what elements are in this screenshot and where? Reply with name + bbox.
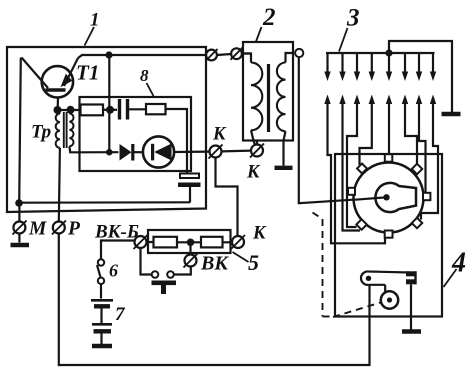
- cap contact N: [385, 154, 393, 162]
- label 4: [451, 248, 466, 279]
- label K left: [212, 125, 227, 145]
- terminal on bus 1: [206, 49, 218, 61]
- label K at box 5: [252, 224, 267, 244]
- cap contact SE: [412, 218, 422, 228]
- coil HV terminal: [295, 49, 303, 57]
- leader line for label 2: [256, 27, 262, 42]
- wire secondary bottom to diode row: [69, 146, 80, 152]
- junction dot M node: [15, 199, 23, 207]
- label R: [67, 219, 81, 240]
- capacitor C1: [120, 99, 128, 120]
- svg-text:Т1: Т1: [76, 61, 99, 85]
- junction dot secondary top: [67, 106, 75, 114]
- label 8: [140, 66, 149, 85]
- label 5: [248, 250, 259, 275]
- label VK-B: [94, 222, 139, 243]
- wire R4 to terminal K: [223, 241, 232, 243]
- terminal K right of box 5: [231, 235, 245, 249]
- wire switch to battery: [100, 284, 102, 298]
- plug wire 7: [419, 102, 426, 193]
- label 1: [90, 10, 100, 31]
- cap contact W: [348, 188, 355, 195]
- transistor T1: [22, 55, 83, 107]
- cam: [381, 291, 398, 308]
- wire from box 1 to coil terminals: [205, 54, 208, 56]
- svg-text:8: 8: [140, 66, 149, 85]
- label Tr: [31, 122, 51, 143]
- starter contact right: [167, 271, 174, 278]
- junction dot diode row: [106, 149, 113, 156]
- transformer Tr core: [64, 112, 67, 148]
- spark gap down arrows: [324, 53, 436, 81]
- wire VK-B to switch 6: [101, 241, 135, 260]
- cap contact SW: [356, 219, 366, 229]
- svg-text:ВК-Б: ВК-Б: [94, 222, 139, 243]
- svg-text:6: 6: [109, 261, 118, 281]
- junction dot resistor row: [106, 106, 114, 114]
- resistor R2: [146, 104, 166, 114]
- transformer Tr secondary winding: [69, 114, 73, 147]
- terminal VK: [184, 254, 198, 268]
- wire coil K terminal up into box: [256, 141, 258, 145]
- label VK: [200, 253, 229, 275]
- ground below fixed contact: [402, 329, 421, 333]
- svg-text:К: К: [252, 224, 267, 244]
- svg-text:ВК: ВК: [200, 253, 229, 275]
- stabilitron D2 in circle: [143, 136, 174, 167]
- resistor R1: [81, 105, 104, 116]
- wire collector down left side: [19, 58, 21, 204]
- wire vertical from emitter bus to diode row: [108, 55, 110, 152]
- wire base row: [58, 109, 81, 111]
- leader line for label 5: [233, 252, 249, 262]
- breaker pivot dot: [366, 276, 371, 281]
- terminal on bus 2: [231, 48, 243, 60]
- plug wire 1: [328, 102, 386, 243]
- wire base node to primary top: [58, 110, 60, 114]
- ground below battery: [92, 344, 112, 348]
- junction dot base node: [54, 106, 62, 114]
- wire VK-B terminal to R3: [147, 241, 154, 243]
- breaker lever: [361, 271, 410, 291]
- resistor R4: [201, 237, 223, 248]
- plug wire 4: [360, 102, 372, 165]
- rotor center dot: [383, 194, 389, 200]
- diode row wire: [80, 151, 119, 153]
- distributor cap: [354, 163, 424, 233]
- spark gap up arrows: [324, 95, 436, 105]
- ground bar right: [442, 112, 461, 116]
- junction dot emitter bus: [105, 51, 112, 58]
- svg-text:Р: Р: [67, 219, 81, 240]
- distributor box 4: [335, 154, 442, 317]
- leader line for label 8: [147, 83, 154, 96]
- coil core: [267, 64, 270, 132]
- capacitor C2 top plate: [180, 174, 199, 179]
- junction dot between R3 R4: [187, 239, 195, 247]
- svg-text:1: 1: [90, 10, 100, 31]
- wire M row: [19, 201, 190, 204]
- box unit 8 outline: [80, 97, 192, 171]
- leader line for label 3: [339, 28, 348, 52]
- box unit 1 outline: [7, 47, 206, 212]
- starter contact common bar: [152, 283, 177, 294]
- svg-text:2: 2: [262, 4, 276, 31]
- terminal R: [52, 221, 66, 235]
- wire between K terminals: [222, 150, 251, 153]
- svg-text:К: К: [246, 163, 261, 183]
- breaker fixed contact: [406, 271, 417, 284]
- plug wire 5: [388, 102, 390, 153]
- label M: [28, 219, 47, 240]
- svg-text:Тр: Тр: [31, 122, 51, 143]
- wire contacts to VK terminal: [174, 267, 191, 275]
- cap contact NW: [357, 164, 367, 174]
- battery 7: [91, 300, 113, 344]
- rotor: [375, 183, 416, 212]
- plug wire 6: [405, 102, 417, 165]
- box 5 resistor block: [148, 230, 231, 253]
- cap contact NE: [412, 164, 422, 174]
- wire R2 to right: [166, 109, 188, 174]
- svg-text:К: К: [212, 125, 227, 145]
- leader line for label 4: [444, 269, 457, 287]
- wire K to box 5: [216, 158, 238, 236]
- wire bus to right ground: [389, 41, 452, 112]
- wire fixed contact to ground: [410, 284, 412, 329]
- label 6: [109, 261, 118, 281]
- cap contact E: [423, 193, 430, 200]
- HV wire from coil to rotor: [299, 57, 387, 203]
- wire R1 to capacitor C1: [103, 109, 117, 111]
- HV lead inside cap: [354, 197, 387, 200]
- wire junction to VK terminal: [189, 246, 191, 254]
- terminal K of coil: [250, 144, 264, 158]
- cam center dot: [387, 297, 392, 302]
- ground below coil secondary: [275, 166, 293, 170]
- label 2: [262, 4, 276, 31]
- capacitor C2 bottom plate: [178, 183, 201, 188]
- switch 6: [97, 259, 104, 284]
- svg-text:М: М: [28, 219, 47, 240]
- plug wire 8: [421, 102, 438, 220]
- transformer Tr primary winding: [56, 114, 60, 148]
- spark gap bus: [326, 52, 435, 54]
- label 3: [346, 5, 360, 32]
- svg-text:5: 5: [248, 250, 259, 275]
- svg-text:3: 3: [346, 5, 360, 32]
- wire C1 to R2: [129, 108, 146, 110]
- diode D1: [120, 144, 144, 161]
- coil secondary winding: [277, 53, 294, 166]
- leader line for label 1: [85, 27, 95, 46]
- plug wire 2: [343, 102, 361, 231]
- ground below M: [11, 243, 30, 247]
- wire R down and bottom run to breaker: [59, 234, 370, 366]
- wire stabilitron to terminal K: [174, 151, 210, 154]
- wire emitter bus y=55: [81, 54, 206, 56]
- wire R3 to R4: [177, 241, 201, 243]
- wire C2 stem to M wire: [189, 187, 191, 203]
- label K below coil terminal: [246, 163, 261, 183]
- coil primary winding: [242, 54, 262, 146]
- starter contact left: [152, 271, 159, 278]
- terminal VK-B: [134, 235, 148, 249]
- junction dot on bus: [385, 49, 392, 56]
- plug wire 3: [347, 102, 357, 227]
- terminal K of unit (left): [209, 145, 223, 159]
- wire VK-B down to starter contacts: [141, 249, 152, 275]
- wire primary bottom to terminal R: [59, 148, 60, 222]
- label T1: [76, 61, 99, 85]
- label 7: [115, 304, 126, 325]
- terminal M: [13, 206, 27, 243]
- cap contact S: [385, 231, 393, 238]
- dashed shaft link: [313, 213, 381, 318]
- svg-text:7: 7: [115, 304, 126, 325]
- resistor R3: [154, 237, 178, 248]
- ignition coil box 2: [243, 42, 293, 141]
